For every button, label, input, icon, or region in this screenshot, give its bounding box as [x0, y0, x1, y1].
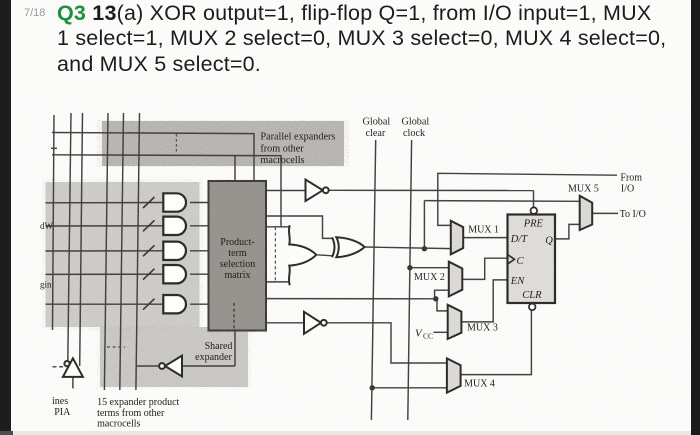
svg-text:clock: clock — [403, 128, 426, 139]
svg-text:matrix: matrix — [224, 270, 250, 281]
svg-text:D/T: D/T — [510, 234, 529, 245]
svg-text:C: C — [517, 256, 525, 267]
svg-text:MUX 5: MUX 5 — [568, 183, 599, 194]
svg-text:macrocells: macrocells — [97, 419, 140, 430]
svg-text:PRE: PRE — [523, 218, 544, 229]
svg-text:macrocells: macrocells — [260, 155, 304, 166]
svg-text:selection: selection — [220, 259, 256, 270]
svg-text:clear: clear — [366, 128, 386, 139]
svg-text:Product-: Product- — [220, 237, 254, 248]
svg-text:Global: Global — [402, 117, 430, 128]
svg-text:from other: from other — [260, 144, 304, 155]
svg-text:expander: expander — [195, 352, 232, 363]
svg-text:Parallel expanders: Parallel expanders — [260, 132, 335, 143]
svg-text:To I/O: To I/O — [620, 209, 646, 220]
svg-text:I/O: I/O — [621, 184, 634, 195]
svg-text:gin: gin — [40, 280, 52, 290]
svg-text:dW: dW — [40, 221, 54, 231]
svg-text:EN: EN — [510, 276, 525, 287]
svg-text:Q: Q — [545, 236, 553, 247]
svg-text:ines: ines — [52, 396, 68, 407]
svg-text:MUX 3: MUX 3 — [467, 323, 498, 334]
svg-text:MUX 4: MUX 4 — [464, 379, 495, 390]
svg-text:15 expander product: 15 expander product — [97, 397, 179, 408]
svg-text:MUX 1: MUX 1 — [468, 224, 499, 235]
svg-text:Global: Global — [363, 117, 391, 128]
svg-text:PIA: PIA — [54, 407, 71, 418]
svg-text:term: term — [228, 248, 247, 259]
svg-text:CC: CC — [423, 332, 433, 341]
svg-text:CLR: CLR — [522, 290, 542, 301]
svg-text:Shared: Shared — [205, 341, 233, 352]
svg-text:terms from other: terms from other — [97, 408, 165, 419]
svg-text:MUX 2: MUX 2 — [414, 272, 445, 283]
svg-text:From: From — [620, 172, 642, 183]
